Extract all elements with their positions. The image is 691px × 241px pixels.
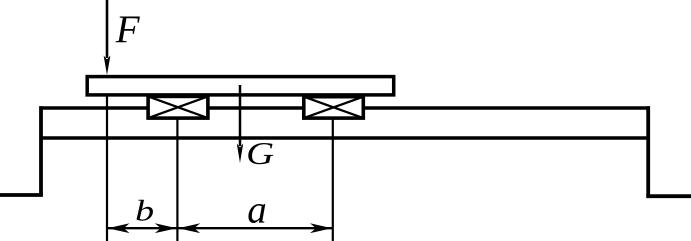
dimension line b (arrowheads outward) — [107, 223, 177, 233]
force F arrow (vertical line + solid arrowhead onto plate top) — [104, 0, 111, 75]
svg-text:a: a — [247, 189, 267, 232]
force G arrow (vertical line + solid arrowhead) — [237, 85, 243, 163]
left support step (vertical + bottom ledge) — [0, 106, 43, 195]
extension line at x=332.8 (right block centre) — [332, 119, 334, 241]
label G — [246, 135, 274, 171]
extension line at x=107 (under F) — [106, 96, 108, 241]
svg-text:G: G — [246, 135, 274, 171]
svg-text:F: F — [115, 8, 141, 51]
extension line at x=177.4 (left block centre) — [176, 119, 178, 241]
label F — [115, 8, 141, 51]
rail bed band bottom line — [40, 136, 651, 140]
dimension line a (arrowheads outward) — [177, 223, 332, 233]
carriage plate — [87, 77, 394, 95]
right support step (vertical + bottom ledge) — [646, 106, 691, 196]
rail bed band top line — [40, 106, 651, 110]
right bearing block with X — [304, 97, 364, 118]
label b — [135, 194, 154, 227]
svg-text:b: b — [135, 194, 154, 227]
label a — [247, 189, 267, 232]
left bearing block with X — [148, 96, 208, 118]
